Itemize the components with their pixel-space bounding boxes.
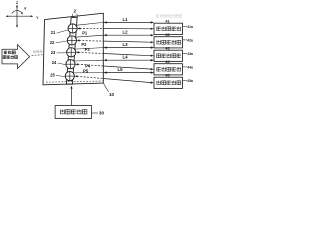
faint artifact band above box 41 bbox=[156, 14, 159, 16]
target circle 22 on mirror bbox=[67, 36, 76, 45]
box right label 44a bbox=[183, 66, 187, 68]
dimension line L3 bbox=[74, 48, 103, 50]
dimension line L2 bbox=[75, 35, 103, 37]
dashed line movement axis bbox=[32, 54, 44, 57]
svg-text:23: 23 bbox=[51, 50, 56, 55]
svg-text:24: 24 bbox=[52, 60, 57, 65]
label 2 leader right bbox=[76, 14, 79, 17]
bottom box dash bbox=[92, 112, 98, 114]
svg-text:25: 25 bbox=[50, 72, 55, 77]
svg-text:P5: P5 bbox=[83, 69, 89, 74]
svg-text:L4: L4 bbox=[122, 55, 128, 60]
target circle 25 on mirror bbox=[65, 72, 74, 81]
block arrow worktable moving direction bbox=[2, 45, 30, 69]
svg-text:41: 41 bbox=[165, 19, 169, 23]
svg-text:θ: θ bbox=[24, 6, 26, 10]
svg-text:44a: 44a bbox=[187, 65, 193, 69]
svg-text:45: 45 bbox=[165, 73, 169, 77]
box text jiguang-ganshe-yi 5 bbox=[156, 81, 158, 85]
svg-text:P4: P4 bbox=[85, 63, 91, 68]
box right label 41a bbox=[183, 25, 187, 27]
label 2 leader left bbox=[72, 14, 73, 17]
laser interferometer box 42 bbox=[154, 37, 183, 48]
svg-text:22: 22 bbox=[50, 40, 55, 45]
box text jiguang-ganshe-yi 3 bbox=[157, 54, 161, 58]
box text jiguang-ganshe-yi 4 bbox=[157, 67, 161, 69]
coordinate axes horizontal arrow Y bbox=[7, 15, 33, 17]
svg-text:42a: 42a bbox=[187, 38, 193, 42]
arrow text yidong-fangxiang (moving direction) bbox=[3, 56, 6, 59]
svg-text:Y: Y bbox=[36, 16, 39, 20]
target circle 23 on mirror bbox=[67, 48, 76, 57]
svg-text:P1: P1 bbox=[82, 30, 88, 35]
bottom box text jiguang-ganshe-yi bbox=[59, 110, 61, 115]
svg-text:41a: 41a bbox=[187, 25, 193, 29]
dimension line L4 bbox=[74, 59, 104, 62]
laser interferometer box 45 bbox=[154, 77, 183, 88]
laser interferometer box 41 bbox=[154, 23, 183, 34]
vertical beam to bottom interferometer bbox=[71, 87, 73, 106]
box right label 42a bbox=[183, 39, 187, 41]
laser beam row 5 bbox=[75, 75, 78, 77]
end mirror bar 2 bbox=[66, 18, 77, 85]
dashed line row5 reference bbox=[46, 81, 103, 82]
laser interferometer box 43 bbox=[154, 50, 183, 61]
svg-text:42: 42 bbox=[165, 33, 169, 37]
laser beam row 1 bbox=[77, 27, 80, 29]
svg-text:21: 21 bbox=[51, 30, 56, 35]
box text jiguang-ganshe-yi 1 bbox=[157, 26, 161, 28]
svg-text:Z: Z bbox=[16, 1, 18, 5]
box text jiguang-ganshe-yi 2 bbox=[156, 40, 158, 44]
axes arc theta rotation bbox=[12, 11, 23, 14]
target circle 24 on mirror bbox=[66, 60, 75, 69]
bottom interferometer box 30 bbox=[55, 106, 91, 119]
laser beam row 2 bbox=[77, 39, 80, 41]
dimension line L5 bbox=[73, 72, 103, 74]
arrow text gongzuotai (worktable) bbox=[4, 50, 7, 52]
box right label 45a bbox=[183, 79, 187, 81]
svg-text:43: 43 bbox=[165, 46, 169, 50]
laser interferometer box 44 bbox=[154, 64, 183, 75]
svg-text:2: 2 bbox=[74, 9, 77, 14]
svg-text:P3: P3 bbox=[85, 47, 91, 52]
laser beam row 4 bbox=[75, 63, 78, 65]
svg-text:L2: L2 bbox=[122, 30, 128, 35]
svg-text:L5: L5 bbox=[117, 67, 123, 72]
svg-text:10: 10 bbox=[109, 92, 114, 97]
dimension line L1 bbox=[76, 22, 104, 25]
target circle 21 on mirror bbox=[68, 24, 77, 33]
svg-text:L3: L3 bbox=[122, 42, 128, 47]
svg-text:43a: 43a bbox=[187, 52, 193, 56]
coordinate axes vertical arrow Z bbox=[16, 6, 18, 27]
leader to label 10 bbox=[104, 83, 109, 91]
faint small text above movement axis bbox=[33, 51, 35, 53]
laser beam row 3 bbox=[76, 51, 79, 53]
svg-text:30: 30 bbox=[99, 111, 104, 116]
svg-text:L1: L1 bbox=[122, 17, 128, 22]
box right label 43a bbox=[183, 52, 187, 54]
svg-text:45a: 45a bbox=[187, 79, 193, 83]
worktable 10 outline bbox=[43, 13, 103, 85]
